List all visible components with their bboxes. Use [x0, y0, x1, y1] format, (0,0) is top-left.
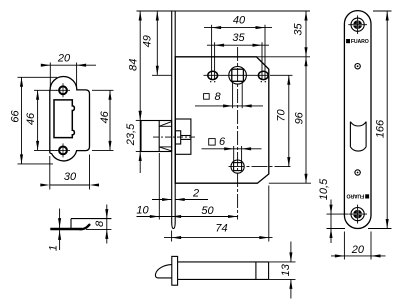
dimension 66: [9, 77, 57, 164]
svg-text:FUARO: FUARO: [351, 39, 369, 45]
svg-text:30: 30: [64, 171, 77, 183]
dimension 20 strike: [41, 53, 96, 88]
fixing hole right: [258, 71, 268, 82]
dimension 166: [368, 11, 392, 229]
svg-text:13: 13: [280, 263, 292, 276]
dimension 84: [128, 11, 142, 173]
strike screw hole top: [56, 83, 70, 97]
dimension 13: [269, 242, 296, 299]
svg-text:10: 10: [136, 205, 149, 217]
dimension 1 tab: [48, 209, 62, 252]
fixing hole left: [208, 71, 218, 82]
body top extension: [256, 56, 310, 58]
tab detail bend lines: [70, 219, 72, 228]
dimension 96: [293, 57, 307, 183]
spindle square hole: [229, 67, 247, 85]
faceplate bottom screw hole: [348, 205, 367, 224]
dimension 49: [141, 11, 159, 75]
bottom hole centerline: [229, 166, 293, 168]
latch head: [141, 121, 172, 152]
svg-text:10,5: 10,5: [318, 178, 330, 200]
svg-text:FUARO: FUARO: [346, 192, 364, 198]
dimension 10,5: [318, 178, 348, 243]
svg-text:6: 6: [219, 136, 226, 148]
dimension 46 right: [92, 90, 114, 150]
dimension 46 left: [25, 90, 57, 150]
dimension 20 faceplate: [331, 232, 386, 260]
svg-text:8: 8: [94, 220, 106, 227]
FUARO logo top: [346, 39, 369, 45]
svg-text:35: 35: [232, 32, 245, 44]
top extension line: [137, 10, 311, 12]
svg-text:166: 166: [374, 119, 386, 138]
svg-text:96: 96: [293, 111, 305, 124]
svg-text:66: 66: [9, 110, 21, 123]
dimension 35 right vertical: [293, 11, 308, 57]
bottom fixing square hole: [231, 160, 244, 173]
dimension 23,5: [125, 111, 142, 161]
small hole upper: [355, 63, 360, 68]
svg-text:46: 46: [25, 112, 37, 125]
magnet window: [350, 122, 366, 151]
svg-text:50: 50: [201, 205, 214, 217]
svg-text:23,5: 23,5: [125, 123, 137, 146]
dimension 70: [270, 75, 293, 166]
svg-text:70: 70: [276, 109, 288, 122]
tab detail plate section: [50, 228, 82, 231]
bottom bar body: [178, 262, 269, 280]
strike plate outline: [50, 77, 90, 161]
dimension 2: [152, 188, 208, 202]
lock body outline: [175, 57, 268, 183]
dimension 30: [40, 155, 99, 190]
centerline 49 extension: [152, 74, 172, 76]
holes centerline horizontal: [204, 74, 269, 76]
strike screw hole bottom: [56, 143, 70, 157]
lock faceplate edge view: [172, 11, 176, 229]
svg-text:8: 8: [214, 91, 221, 103]
tab detail hook: [80, 225, 89, 229]
FUARO logo bottom: [346, 192, 369, 198]
spindle vertical centerline: [237, 47, 239, 220]
svg-text:74: 74: [215, 223, 227, 235]
dimension square 8: [195, 82, 263, 109]
svg-text:1: 1: [48, 245, 60, 251]
svg-text:40: 40: [233, 15, 246, 27]
svg-text:35: 35: [293, 23, 305, 36]
strike plate latch cutout: [54, 100, 74, 138]
dimension square 6: [202, 136, 262, 163]
faceplate top screw hole: [348, 15, 367, 34]
dimension 40: [204, 15, 272, 80]
dimension 8 tab: [86, 205, 111, 244]
bottom bar latch nose: [155, 265, 171, 278]
faceplate front view outline: [344, 11, 371, 229]
svg-text:49: 49: [141, 35, 153, 47]
bottom bar faceplate section: [172, 256, 178, 285]
latch tail: [175, 119, 191, 154]
dimension 10 and 50: [136, 153, 238, 220]
dimension 35 top: [207, 32, 269, 79]
svg-text:20: 20: [351, 244, 365, 256]
svg-text:20: 20: [57, 53, 71, 65]
latch centerline: [153, 136, 196, 138]
svg-text:46: 46: [99, 110, 111, 123]
dimension 74: [164, 186, 273, 242]
svg-text:84: 84: [128, 59, 140, 71]
svg-text:2: 2: [192, 188, 199, 200]
small hole lower: [355, 170, 360, 175]
body bottom extension: [269, 182, 311, 184]
